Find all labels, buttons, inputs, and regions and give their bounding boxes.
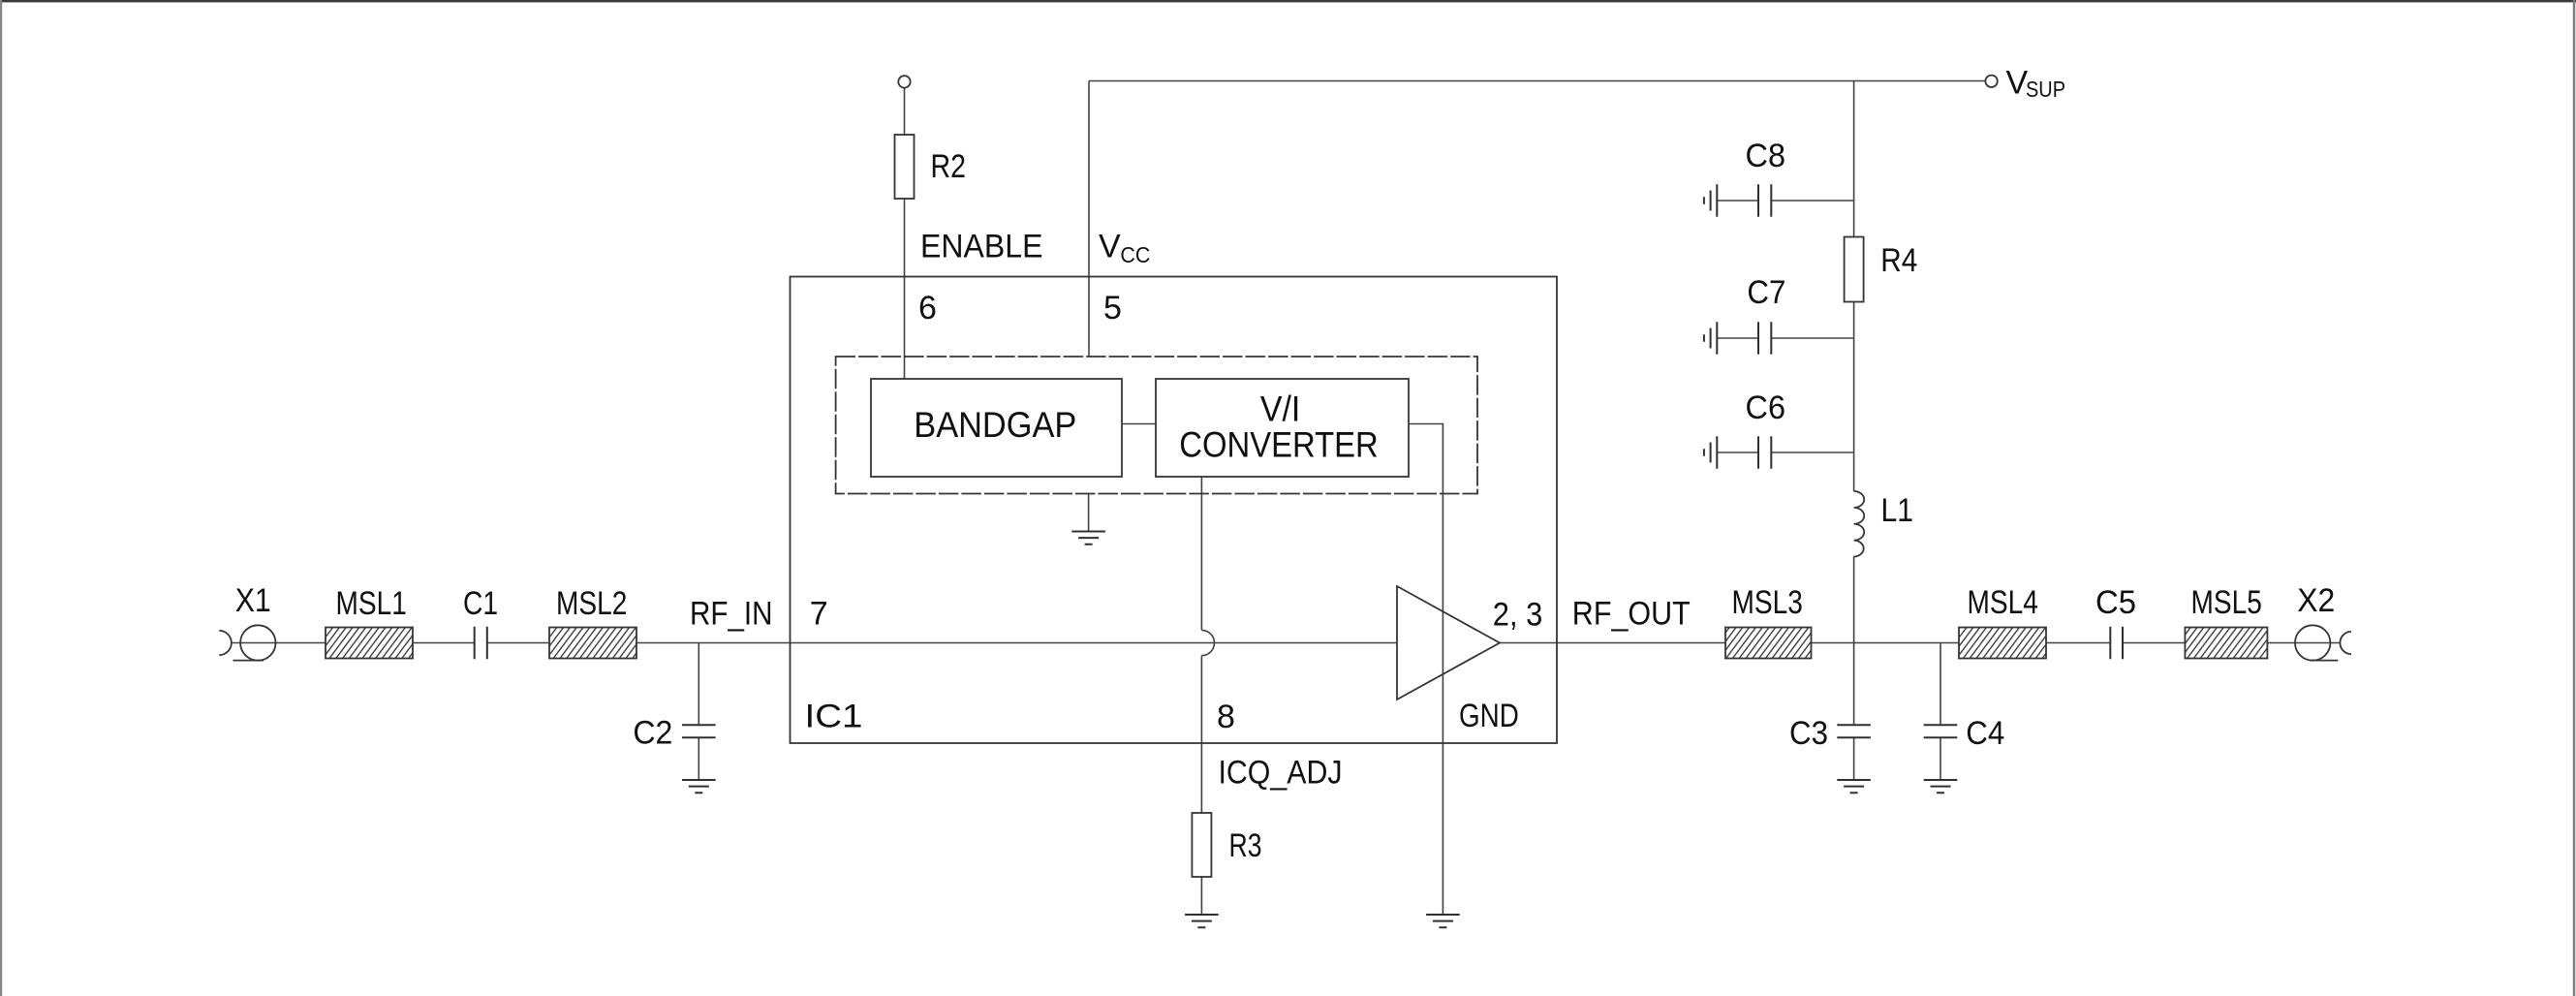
- wire VCC pin 5: [1088, 81, 1090, 358]
- svg-text:V: V: [1099, 229, 1121, 265]
- wire R2 to pin 6 BANDGAP: [904, 199, 906, 379]
- RF_OUT to MSL3 microstrip MSL3: [1725, 628, 1812, 659]
- BANDGAP box: [871, 379, 1122, 477]
- wire C4 to ground: [1940, 737, 1941, 780]
- ground left of C6: [1704, 436, 1717, 469]
- svg-text:RF_OUT: RF_OUT: [1572, 596, 1691, 633]
- amplifier triangle: [1397, 586, 1500, 700]
- capacitor C2: [682, 725, 716, 737]
- wire R3 to ground: [1200, 877, 1202, 915]
- svg-text:5: 5: [1103, 290, 1122, 327]
- wire BANDGAP to V/I converter: [1122, 423, 1156, 425]
- svg-text:ENABLE: ENABLE: [920, 229, 1043, 265]
- svg-text:C8: C8: [1746, 138, 1786, 174]
- wire terminal to R2: [904, 87, 906, 135]
- ground left of C8: [1704, 184, 1717, 217]
- wire top supply rail: [1089, 80, 1986, 82]
- svg-text:MSL4: MSL4: [1968, 584, 2038, 621]
- ground under C2: [682, 780, 716, 793]
- wire C7 ground to plate: [1717, 337, 1758, 339]
- svg-text:X2: X2: [2297, 582, 2335, 619]
- wire supply down to R4: [1853, 81, 1855, 237]
- resistor R3: [1192, 813, 1211, 877]
- wire C8 to rail: [1771, 200, 1853, 202]
- wire C3 to ground: [1853, 737, 1855, 780]
- wire C4 branch down: [1940, 643, 1941, 726]
- svg-text:L1: L1: [1881, 492, 1914, 529]
- dashed internal block: [836, 357, 1477, 494]
- resistor R2: [895, 135, 915, 199]
- resistor R4: [1845, 237, 1864, 302]
- V/I converter box U: [1156, 379, 1409, 477]
- microstrip MSL2: [549, 628, 636, 659]
- connector X2: [2295, 625, 2351, 660]
- ground under C4: [1924, 780, 1958, 793]
- svg-text:V/I: V/I: [1260, 389, 1301, 429]
- capacitor C4: [1924, 725, 1958, 737]
- microstrip MSL1: [326, 628, 413, 659]
- svg-text:C3: C3: [1789, 715, 1828, 752]
- svg-text:8: 8: [1217, 699, 1235, 735]
- svg-text:R2: R2: [931, 148, 967, 185]
- svg-text:MSL2: MSL2: [556, 585, 627, 622]
- wire main RF line RF_IN to amplifier: [487, 642, 1397, 644]
- wire bandgap ground stem: [1088, 494, 1090, 532]
- wire main RF line amplifier to C5: [1500, 642, 2110, 644]
- svg-text:MSL5: MSL5: [2191, 584, 2262, 621]
- svg-text:SUP: SUP: [2026, 77, 2065, 102]
- capacitor C6: [1758, 436, 1771, 469]
- svg-text:ICQ_ADJ: ICQ_ADJ: [1219, 755, 1343, 792]
- wire V/I converter to pin 8 upper: [1200, 477, 1202, 630]
- svg-text:2, 3: 2, 3: [1493, 597, 1543, 634]
- svg-text:CC: CC: [1120, 242, 1150, 267]
- terminal for R2 enable: [898, 76, 910, 87]
- svg-text:C2: C2: [633, 714, 672, 751]
- wire C7 to rail: [1771, 337, 1853, 339]
- svg-text:C4: C4: [1966, 715, 2004, 752]
- svg-text:MSL1: MSL1: [336, 585, 407, 622]
- svg-text:6: 6: [918, 290, 937, 327]
- svg-text:C7: C7: [1747, 274, 1785, 311]
- wire C2 to ground: [698, 737, 699, 780]
- svg-text:X1: X1: [235, 582, 271, 619]
- svg-text:BANDGAP: BANDGAP: [914, 405, 1076, 445]
- wire R4 to L1: [1853, 302, 1855, 492]
- svg-text:C5: C5: [2095, 584, 2136, 621]
- wire C2 branch down: [698, 643, 699, 726]
- ground under R3: [1185, 915, 1219, 927]
- svg-text:MSL3: MSL3: [1732, 584, 1803, 621]
- wire hop over RF line: [1201, 630, 1214, 655]
- wire C8 ground to plate: [1717, 200, 1758, 202]
- microstrip MSL4: [1959, 628, 2046, 659]
- inductor L1: [1854, 491, 1865, 557]
- svg-text:GND: GND: [1459, 698, 1519, 734]
- svg-text:7: 7: [810, 596, 828, 633]
- wire main RF line left: [232, 642, 475, 644]
- wire main RF line C5 to X2: [2123, 642, 2340, 644]
- capacitor C1: [475, 627, 487, 660]
- capacitor C8: [1758, 184, 1771, 217]
- page border left: [0, 0, 2, 996]
- svg-text:C1: C1: [463, 585, 498, 622]
- wire L1 to C3: [1853, 557, 1855, 726]
- microstrip MSL5: [2185, 628, 2267, 659]
- ground left of C7: [1704, 322, 1717, 355]
- svg-text:IC1: IC1: [805, 699, 863, 735]
- IC1 box: [791, 277, 1558, 744]
- ground under C3: [1837, 780, 1871, 793]
- page border right: [2573, 0, 2576, 996]
- connector X1: [219, 625, 275, 660]
- capacitor C3: [1837, 725, 1871, 737]
- svg-text:CONVERTER: CONVERTER: [1179, 425, 1379, 465]
- terminal V_SUP: [1985, 76, 1997, 87]
- svg-text:R3: R3: [1229, 827, 1262, 864]
- wire C6 to rail: [1771, 451, 1853, 453]
- capacitor C7: [1758, 322, 1771, 355]
- page border top: [0, 0, 2576, 2]
- wire V/I converter to GND pin: [1409, 424, 1443, 916]
- capacitor C5: [2110, 627, 2123, 660]
- svg-text:RF_IN: RF_IN: [690, 596, 773, 633]
- svg-text:R4: R4: [1880, 242, 1917, 279]
- ground under GND pin: [1426, 915, 1460, 927]
- ground below bandgap block: [1071, 532, 1105, 545]
- svg-text:C6: C6: [1746, 389, 1786, 426]
- wire C6 ground to plate: [1717, 451, 1758, 453]
- wire pin 8 to R3: [1200, 656, 1202, 813]
